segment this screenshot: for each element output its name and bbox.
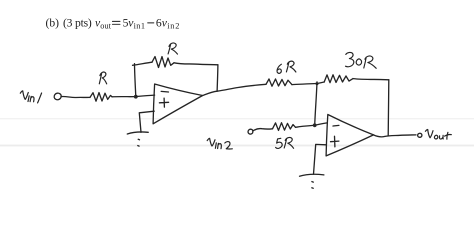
wire node C to op-amp U2 inverting input (315, 123, 328, 125)
wire 5R to node C (296, 125, 315, 127)
wire R1 to node A (112, 96, 136, 98)
label R1 (99, 72, 106, 84)
node A junction dot (134, 95, 138, 99)
svg-text:(b): (b) (46, 16, 60, 29)
resistor R5 5R (273, 123, 296, 131)
op-amp U2 triangle (326, 115, 373, 156)
op-amp U1 triangle (153, 84, 203, 124)
resistor R2 feedback (152, 57, 174, 68)
U2 plus sign (331, 136, 339, 147)
wire feedback top left (133, 62, 153, 65)
label 6R (277, 61, 296, 73)
Vout label (425, 130, 451, 140)
U1 plus sign (159, 98, 168, 107)
wire U2 output (374, 135, 417, 137)
U2 minus sign (333, 124, 339, 127)
wire feedback right vertical (216, 65, 219, 91)
wire 30R to feedback corner (353, 79, 389, 80)
U1 minus sign (161, 90, 168, 93)
node Vout terminal (418, 133, 422, 137)
wire feedback left vertical (135, 64, 136, 97)
wire node B down to node C (315, 82, 317, 125)
label 5R (276, 137, 294, 148)
svg-text:in2: in2 (167, 21, 179, 30)
wire feedback top right (174, 63, 218, 65)
node C junction dot (313, 123, 317, 127)
wire U2 noninverting input to ground (314, 144, 327, 174)
wire Vin1 terminal to R1 (61, 96, 90, 97)
wire node A to op-amp U1 inverting input (136, 95, 155, 97)
wire U1 output to 6R (203, 84, 266, 95)
ground 1 (127, 132, 148, 134)
wire U1 noninverting input to ground (139, 111, 154, 132)
wire node B to 30R (317, 82, 324, 84)
svg-text:out: out (100, 21, 111, 30)
resistor R4 30R (324, 75, 353, 83)
wire 6R to node B (292, 83, 317, 84)
node Vin2 terminal (248, 129, 253, 134)
svg-text:(3 pts): (3 pts) (63, 16, 92, 29)
wire feedback 2 right vertical (387, 80, 390, 136)
label 30R (346, 52, 377, 68)
resistor R3 6R (266, 79, 292, 86)
scan artifact lines (0, 118, 474, 119)
wire Vin2 terminal to 5R (253, 129, 273, 131)
label R2 (168, 43, 177, 54)
ground 2 (300, 174, 324, 176)
title: (b) (3 pts) v_out = 5 v_in1 - 6 v_in2 (46, 16, 180, 30)
Vin2 label (207, 138, 232, 149)
Vin1 label (20, 91, 41, 103)
node Vin1 terminal (54, 93, 61, 100)
svg-text:in1: in1 (134, 21, 145, 30)
resistor R1 (90, 93, 112, 102)
